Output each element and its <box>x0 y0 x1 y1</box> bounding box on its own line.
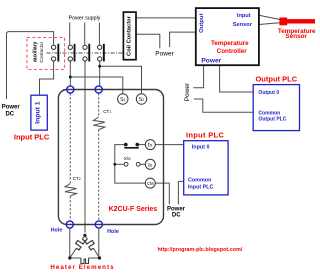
svg-text:Heater Elements: Heater Elements <box>50 264 114 271</box>
svg-text:Contactor: Contactor <box>39 41 45 62</box>
svg-text:Hole: Hole <box>107 229 119 235</box>
svg-text:CM: CM <box>147 181 154 186</box>
svg-text:Output: Output <box>199 14 205 33</box>
svg-text:Hole: Hole <box>51 228 63 234</box>
svg-text:DC: DC <box>5 111 14 117</box>
svg-text:Common: Common <box>258 111 280 117</box>
svg-text:Output PLC: Output PLC <box>258 117 286 123</box>
svg-text:Power: Power <box>155 50 174 57</box>
svg-text:http://program-plc.blogspot.co: http://program-plc.blogspot.com/ <box>158 247 243 253</box>
svg-text:auxiliary: auxiliary <box>32 41 38 62</box>
svg-text:Sensor: Sensor <box>233 22 253 28</box>
svg-text:Power: Power <box>201 58 221 65</box>
svg-text:CT2: CT2 <box>73 176 81 181</box>
svg-text:Input 1: Input 1 <box>35 101 42 123</box>
svg-text:CT1: CT1 <box>103 109 111 114</box>
svg-text:Power: Power <box>184 82 191 101</box>
svg-text:Input PLC: Input PLC <box>14 133 50 142</box>
svg-text:Input 0: Input 0 <box>192 145 210 151</box>
svg-text:Output PLC: Output PLC <box>255 75 297 84</box>
svg-text:Controller: Controller <box>217 48 248 55</box>
svg-text:Power supply: Power supply <box>69 15 101 21</box>
svg-text:DC: DC <box>172 212 181 218</box>
svg-text:Power: Power <box>2 105 21 111</box>
svg-text:Input: Input <box>237 13 251 19</box>
svg-text:Output 0: Output 0 <box>258 90 279 96</box>
svg-text:X/o: X/o <box>124 156 131 161</box>
svg-text:Input PLC: Input PLC <box>186 131 224 140</box>
svg-text:Temperature: Temperature <box>211 40 249 47</box>
svg-text:K2CU-F Series: K2CU-F Series <box>109 206 158 213</box>
svg-text:Input PLC: Input PLC <box>188 185 214 191</box>
svg-text:Sensor: Sensor <box>286 33 308 40</box>
svg-text:Coil Contactor: Coil Contactor <box>127 15 133 56</box>
svg-text:Common: Common <box>188 178 211 184</box>
